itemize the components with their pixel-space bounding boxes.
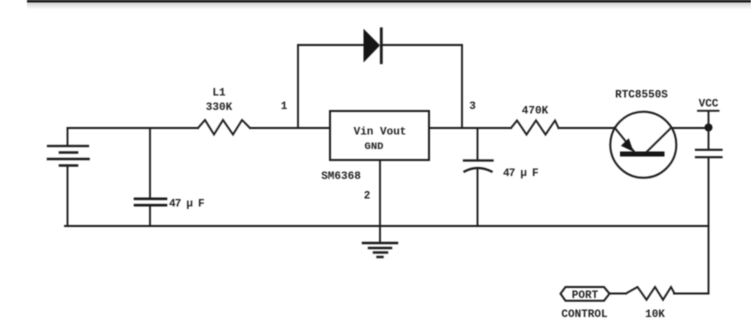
wire top rail left segment (68, 127, 199, 129)
wire PORT tag to resistor (610, 293, 627, 295)
wire resistor to transistor (559, 127, 616, 129)
resistor 470K (511, 121, 559, 135)
svg-text:470K: 470K (522, 106, 549, 118)
wire diode anode (298, 44, 363, 46)
wire top rail to IC Vin (250, 127, 330, 129)
inductor L1 (198, 120, 250, 135)
resistor 10K (626, 287, 675, 300)
svg-text:10K: 10K (645, 309, 665, 321)
svg-text:RTC8550S: RTC8550S (615, 90, 668, 102)
capacitor C2 47uF (464, 128, 493, 226)
capacitor C1 47uF (135, 128, 166, 226)
VCC underline (698, 110, 719, 112)
svg-text:VCC: VCC (699, 99, 719, 111)
wire battery negative down to bottom rail (67, 166, 69, 227)
svg-text:47 µ F: 47 µ F (503, 168, 538, 180)
wire diode cathode (382, 44, 462, 46)
svg-text:PORT: PORT (572, 290, 599, 302)
svg-text:CONTROL: CONTROL (561, 309, 608, 321)
svg-text:GND: GND (365, 141, 384, 153)
svg-text:330K: 330K (206, 102, 233, 114)
op-amp U1 regulator SM6368 box (330, 111, 429, 160)
wire VCC down to capacitor (708, 111, 710, 149)
capacitor C3 (696, 150, 722, 157)
battery B1 (48, 146, 89, 166)
diode D1 (364, 29, 382, 63)
svg-text:2: 2 (364, 191, 371, 203)
svg-text:3: 3 (469, 101, 476, 113)
svg-text:47 µ F: 47 µ F (169, 199, 204, 211)
wire port branch horizontal (674, 293, 709, 295)
wire transistor to VCC node (671, 127, 709, 129)
node PORT tag (561, 287, 610, 301)
svg-text:1: 1 (281, 101, 288, 113)
node VCC junction (705, 124, 713, 132)
wire bottom rail (65, 225, 709, 227)
svg-text:Vin Vout: Vin Vout (354, 127, 407, 139)
ground (363, 243, 397, 257)
wire top rail from IC Vout (429, 127, 511, 129)
wire IC pin2 to ground (379, 160, 381, 243)
wire capacitor down past bottom rail to port branch (708, 158, 710, 294)
wire battery positive to top rail (67, 128, 69, 146)
transistor Q1 RTC8550S (610, 112, 676, 178)
svg-text:SM6368: SM6368 (321, 171, 361, 183)
svg-text:L1: L1 (212, 88, 226, 100)
wire diode loop down to node 3 (461, 45, 463, 128)
wire node 1 up to diode loop (297, 45, 299, 128)
